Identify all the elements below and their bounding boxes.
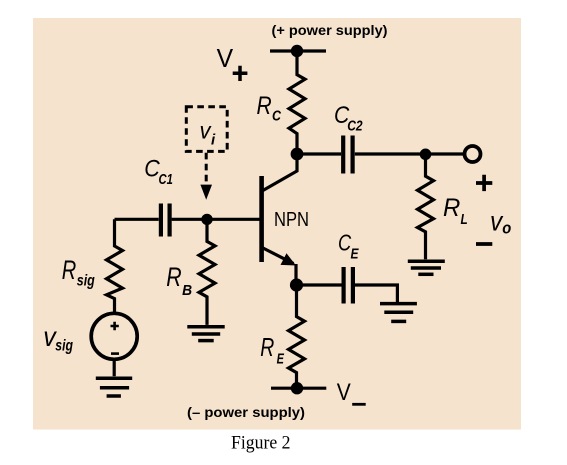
svg-text:o: o [502,220,511,238]
svg-text:B: B [182,283,192,299]
svg-text:R: R [260,332,274,362]
svg-text:L: L [461,212,468,228]
svg-text:E: E [277,352,285,368]
svg-text:R: R [443,194,460,222]
svg-text:C2: C2 [347,119,362,135]
svg-text:sig: sig [55,338,73,355]
svg-text:V: V [337,379,352,406]
svg-text:sig: sig [77,273,95,290]
svg-text:E: E [351,246,360,262]
svg-text:C1: C1 [159,172,173,188]
svg-text:C: C [272,109,281,125]
svg-text:R: R [62,255,77,285]
svg-text:(+ power supply): (+ power supply) [272,22,388,38]
svg-text:(– power supply): (– power supply) [187,404,305,420]
svg-text:NPN: NPN [274,209,309,231]
svg-text:Figure 2: Figure 2 [231,434,291,454]
svg-text:R: R [166,262,181,292]
svg-text:R: R [257,92,272,120]
svg-text:V: V [217,43,234,73]
